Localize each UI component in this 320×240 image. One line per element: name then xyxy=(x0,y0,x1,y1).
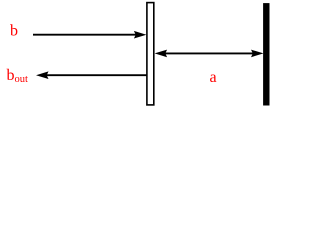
slab / membrane (thin outlined rectangle) xyxy=(147,3,154,105)
double-headed arrow for distance a xyxy=(155,50,264,58)
wall (thick black bar) xyxy=(263,3,269,105)
svg-text:a: a xyxy=(210,69,217,86)
arrow b_out (outgoing, points left) xyxy=(36,71,147,79)
arrow b (incoming, points right at slab) xyxy=(33,31,146,39)
svg-text:b: b xyxy=(10,23,18,40)
